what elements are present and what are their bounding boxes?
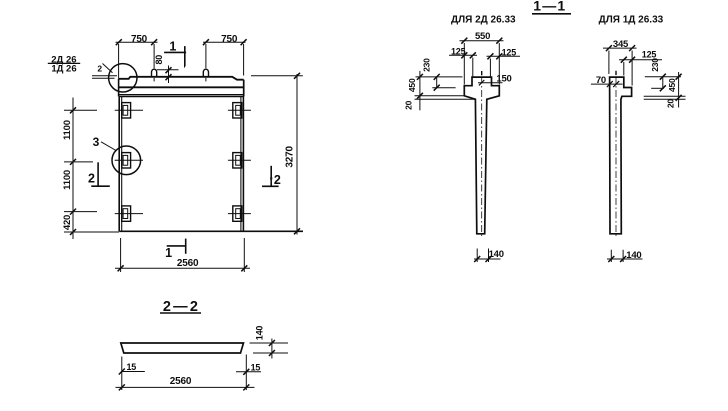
top dim ext panel right — [243, 44, 245, 76]
right heights main vertical — [678, 72, 680, 108]
left section centerline — [481, 77, 483, 239]
right heights ext mid — [651, 87, 664, 89]
dim 125 left ext — [472, 58, 474, 77]
embedded plate right mid axis — [228, 159, 251, 161]
bottom dim 2560 line — [115, 267, 250, 269]
tick — [621, 57, 627, 63]
ledge bottom line — [119, 96, 244, 98]
svg-text:550: 550 — [475, 31, 490, 42]
panel body right inner edge — [240, 96, 242, 231]
dim 80 ext from loop top — [157, 69, 179, 71]
tick — [417, 74, 423, 80]
tick — [294, 73, 300, 79]
tick — [434, 74, 440, 80]
embedded plate right top outer — [233, 103, 242, 118]
dim 550 ext left — [463, 43, 465, 85]
svg-text:1100: 1100 — [62, 120, 73, 140]
dim 230 mini vertical — [436, 77, 438, 88]
fraction leader line 1 — [92, 75, 117, 77]
svg-text:750: 750 — [221, 34, 238, 45]
tick — [496, 53, 502, 59]
tick — [241, 265, 247, 271]
svg-text:15: 15 — [251, 363, 261, 373]
tick — [487, 53, 493, 59]
lifting loop right — [203, 69, 208, 77]
svg-text:150: 150 — [496, 73, 511, 84]
tick — [417, 93, 423, 99]
dim 125 left line — [449, 54, 477, 56]
dim 125 right ext — [489, 59, 491, 77]
title 1-1 underline — [532, 13, 571, 15]
svg-text:2560: 2560 — [177, 258, 199, 269]
dim 550 line — [460, 40, 504, 42]
left heights ext flange bottom — [415, 95, 464, 97]
tick — [70, 209, 76, 215]
tick — [629, 45, 635, 51]
2-2 dim 2560 line — [116, 386, 255, 388]
left chain ext 4 to panel corner — [64, 231, 119, 233]
tick — [676, 95, 682, 101]
2-2 dim 140 ext bottom — [253, 352, 288, 354]
svg-text:750: 750 — [131, 34, 148, 45]
tick — [660, 74, 666, 80]
embedded plate left mid axis — [115, 159, 143, 161]
fraction leader line 2 — [92, 77, 115, 79]
svg-text:2560: 2560 — [170, 376, 192, 387]
SECTION 1-1 LEFT: outline for 2D26.33 — [464, 77, 499, 234]
top dim ext panel left — [118, 44, 120, 79]
2-2 right 15 ext vertical — [245, 355, 247, 391]
dim 3270 vertical line — [296, 74, 298, 235]
section mark 1 bottom bar — [167, 245, 186, 247]
SECTION 2-2 title underline — [160, 312, 201, 314]
embedded plate left mid outer — [122, 153, 131, 168]
right section bottom dim ext — [611, 250, 623, 262]
left heights ext mid — [432, 87, 455, 89]
top dim ext loop left — [153, 44, 155, 68]
top dim 750 right line — [203, 41, 246, 43]
embedded plate right top axis — [228, 109, 251, 111]
svg-text:1: 1 — [165, 246, 172, 260]
top dim 750 left line — [116, 41, 158, 43]
tick — [203, 39, 209, 45]
svg-text:140: 140 — [626, 250, 641, 261]
ledge left edge — [118, 79, 120, 97]
2-2 left 15 dim line — [122, 371, 145, 373]
tick — [479, 80, 484, 85]
left chain ext 3 — [64, 211, 97, 213]
svg-text:15: 15 — [126, 362, 136, 372]
svg-text:140: 140 — [489, 249, 504, 260]
section line dash above ledge — [184, 64, 186, 68]
fraction label underline — [48, 62, 80, 64]
tick — [269, 350, 275, 356]
dim 70 leader — [591, 83, 623, 85]
svg-text:450: 450 — [667, 78, 677, 92]
tick — [166, 74, 172, 80]
left chain ext 1 — [64, 109, 97, 111]
embedded plate right mid outer — [233, 153, 242, 168]
bottom dim 2560 ext left — [120, 238, 122, 272]
svg-text:450: 450 — [407, 78, 417, 92]
2-2 right 15 dim line — [236, 371, 261, 373]
dim 550 ext right — [498, 43, 500, 85]
detail 2 leader — [103, 64, 113, 73]
svg-text:20: 20 — [404, 100, 414, 110]
svg-text:125: 125 — [451, 46, 466, 56]
tick — [119, 384, 125, 390]
svg-text:1Д 26: 1Д 26 — [51, 64, 76, 75]
svg-text:140: 140 — [255, 326, 265, 341]
ledge mid line — [119, 86, 244, 88]
detail 3 leader — [101, 142, 116, 151]
panel bottom edge extended to 3270 dim — [119, 230, 303, 232]
right section centerline — [615, 77, 617, 239]
embedded plate left top outer — [122, 103, 131, 118]
panel body left outer edge — [118, 96, 120, 231]
section mark 1 top vertical — [184, 46, 186, 66]
lifting loop left — [152, 69, 157, 77]
tick — [676, 74, 682, 80]
embedded plate right bottom axis — [228, 213, 251, 215]
section mark 1 bottom vertical — [185, 239, 187, 254]
lifting loop left axis dash — [153, 78, 155, 82]
left heights main vertical — [419, 71, 421, 110]
detail circle 3 — [112, 146, 141, 175]
embedded plate left bottom outer — [122, 206, 131, 221]
svg-text:70: 70 — [596, 75, 606, 86]
tick — [486, 256, 492, 262]
svg-text:230: 230 — [650, 58, 660, 72]
tick — [294, 228, 300, 234]
tick — [243, 384, 249, 390]
panel ledge outline — [119, 77, 244, 80]
embedded plate left bottom inner — [123, 209, 128, 219]
svg-text:3: 3 — [93, 135, 100, 149]
right section bottom dim line — [607, 258, 643, 260]
tick — [70, 159, 76, 165]
svg-text:1—1: 1—1 — [533, 0, 566, 14]
2-2 dim 140 vertical — [271, 339, 273, 359]
tick — [243, 369, 249, 375]
svg-text:230: 230 — [422, 58, 432, 72]
right heights ext flange bottom — [644, 95, 686, 97]
left heights ext top — [416, 76, 463, 78]
tick — [474, 256, 480, 262]
left heights ext stem top — [415, 98, 475, 100]
right heights ext stem top — [644, 98, 686, 100]
ledge right edge — [243, 80, 245, 97]
section mark 2 left vertical — [97, 162, 99, 186]
tick — [269, 340, 275, 346]
svg-text:20: 20 — [665, 99, 675, 109]
tick — [166, 67, 172, 73]
svg-text:2: 2 — [88, 172, 95, 186]
section 2-2 slab — [121, 343, 244, 353]
tick — [70, 107, 76, 113]
dim 80 vertical line — [168, 66, 170, 84]
2-2 dim 140 ext top — [250, 342, 289, 344]
2-2 left 15 ext vertical — [121, 357, 123, 391]
dim 3270 ext top — [251, 75, 303, 77]
dim 125 right line — [487, 55, 521, 57]
svg-text:2—2: 2—2 — [163, 299, 200, 315]
svg-text:80: 80 — [154, 55, 164, 65]
dim 230 mini vertical right — [662, 77, 664, 89]
top dim ext loop right — [205, 44, 207, 68]
tick — [620, 256, 626, 262]
svg-text:125: 125 — [502, 47, 517, 57]
embedded plate left top inner — [123, 105, 128, 115]
tick — [70, 229, 76, 235]
left section top tick — [481, 71, 483, 75]
dim 125 ext — [623, 62, 625, 76]
svg-text:3270: 3270 — [284, 146, 295, 168]
tick — [116, 39, 122, 45]
section mark 2 right bar — [262, 185, 279, 187]
tick — [629, 57, 635, 63]
section mark 2 left bar — [91, 185, 110, 187]
SECTION 1-1 RIGHT: outline for 1D26.33 — [610, 77, 632, 234]
dim 345 line — [603, 47, 637, 49]
tick — [660, 85, 666, 91]
dim 345 ext right — [631, 51, 633, 86]
svg-text:345: 345 — [613, 39, 629, 50]
section mark 2 right arrowhead — [270, 178, 273, 185]
tick — [461, 38, 467, 44]
tick — [118, 265, 124, 271]
left section 150 leader — [478, 82, 503, 84]
svg-text:125: 125 — [642, 49, 657, 59]
tick — [119, 369, 125, 375]
svg-text:1: 1 — [169, 39, 176, 53]
svg-text:ДЛЯ 1Д 26.33: ДЛЯ 1Д 26.33 — [599, 14, 664, 25]
left section bottom dim ext — [477, 249, 488, 263]
dim 125 line right section — [619, 59, 662, 61]
svg-text:420: 420 — [62, 215, 73, 230]
embedded plate right bottom outer — [233, 206, 242, 221]
section mark 2 right vertical — [270, 166, 272, 187]
right heights ext top — [645, 76, 681, 78]
tick — [461, 52, 467, 58]
tick — [607, 81, 613, 87]
left chain dim line — [72, 98, 74, 240]
svg-text:2: 2 — [274, 173, 281, 187]
panel body left inner edge — [121, 96, 123, 231]
ledge lower line — [119, 94, 244, 96]
svg-text:1100: 1100 — [62, 170, 73, 190]
lifting loop right axis dash — [205, 78, 207, 82]
tick — [608, 256, 614, 262]
tick — [470, 52, 476, 58]
embedded plate right mid inner — [236, 155, 241, 165]
tick — [606, 45, 612, 51]
svg-text:ДЛЯ 2Д 26.33: ДЛЯ 2Д 26.33 — [451, 14, 516, 25]
section mark 1 top bar — [164, 51, 186, 53]
tick — [241, 39, 247, 45]
bottom dim 2560 ext right — [243, 238, 245, 272]
embedded plate left top axis — [115, 109, 143, 111]
detail circle 2 — [109, 64, 137, 92]
embedded plate right top inner — [236, 105, 241, 115]
embedded plate right bottom inner — [236, 209, 241, 219]
tick — [613, 81, 619, 87]
left chain ext 2 — [64, 161, 93, 163]
tick — [151, 39, 157, 45]
svg-text:2: 2 — [97, 63, 102, 73]
dim 345 ext left — [608, 51, 610, 75]
panel body right outer edge — [242, 96, 244, 231]
right section top tick — [615, 71, 617, 75]
embedded plate left mid inner — [123, 155, 128, 165]
tick — [434, 85, 440, 91]
embedded plate left bottom axis — [115, 213, 143, 215]
left section bottom dim line — [474, 258, 501, 260]
tick — [496, 38, 502, 44]
